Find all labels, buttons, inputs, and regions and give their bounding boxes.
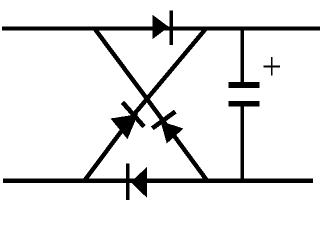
wire: top rail [2,27,320,31]
wire: capacitor branch upper segment [240,29,244,87]
diode D3 triangle (on rising diagonal, pointing up-right) [111,114,139,139]
diode D1 triangle (top rail, pointing right) [153,15,169,39]
capacitor C1 top plate [229,82,260,88]
diode D1 cathode bar [170,10,174,45]
wire: diagonal from bottom-left node to top-right node [85,29,207,181]
wire: capacitor branch lower segment [240,102,244,181]
diode D4 cathode bar [152,112,175,129]
polarity label + of capacitor C1 [264,57,280,75]
diode D2 triangle (bottom rail, pointing left) [131,167,147,199]
capacitor C1 bottom plate [229,101,260,107]
diode D3 cathode bar [123,102,145,126]
diode D4 triangle (on falling diagonal, pointing up-left) [161,121,184,143]
diode D2 cathode bar [126,163,129,200]
wire: diagonal from top-left node to bottom-right node [95,29,208,181]
wire: bottom rail [3,179,313,183]
